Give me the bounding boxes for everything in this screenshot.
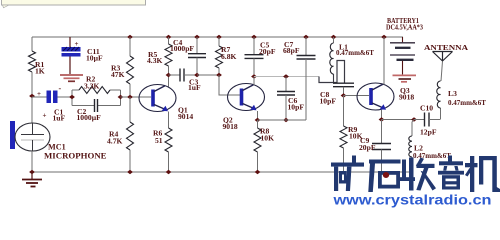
tooltip box top-left: [2, 0, 146, 8]
svg-text:1uF: 1uF: [53, 113, 66, 122]
svg-text:1K: 1K: [35, 67, 45, 76]
label R1 1K: [35, 60, 45, 76]
node Q2 collector junction: [251, 74, 257, 78]
wire bottom ground rail: [32, 171, 412, 173]
svg-text:4.7K: 4.7K: [107, 137, 122, 146]
svg-text:C10: C10: [420, 104, 433, 113]
svg-text:www.crystalradio.cn: www.crystalradio.cn: [332, 193, 491, 208]
node top rail C7: [303, 35, 309, 39]
ground below microphone: [22, 170, 42, 187]
node Q1 base junction: [127, 95, 133, 99]
label Q3 9018: [399, 86, 414, 102]
label R2 3.3K: [84, 75, 99, 91]
svg-text:1000pF: 1000pF: [170, 44, 194, 53]
wire top supply rail: [32, 36, 403, 38]
svg-text:51: 51: [155, 136, 163, 145]
inductor L3: [437, 81, 441, 119]
svg-text:20pF: 20pF: [359, 143, 376, 152]
wire Q1 emitter: [168, 112, 170, 129]
wire emitter to output: [382, 119, 415, 121]
wire Q3 collector: [383, 37, 385, 85]
resistor R4: [127, 97, 134, 172]
node Q3 base junction: [341, 93, 347, 97]
label mic plus: [43, 112, 47, 120]
svg-text:+: +: [75, 40, 79, 48]
label C1 polarity marks: [37, 84, 62, 98]
node top rail C4: [194, 35, 200, 39]
svg-text:68pF: 68pF: [283, 46, 300, 55]
wire C4 to R7: [197, 74, 219, 76]
capacitor C7: [297, 37, 316, 120]
capacitor C8: [333, 83, 354, 95]
svg-text:L3: L3: [448, 89, 457, 98]
svg-text:10K: 10K: [261, 134, 275, 143]
svg-text:47K: 47K: [111, 70, 125, 79]
node bottom rail R4: [127, 170, 133, 174]
wire oscillator feedback top: [254, 76, 319, 78]
svg-text:MICROPHONE: MICROPHONE: [44, 150, 107, 160]
svg-text:+: +: [43, 112, 47, 120]
label C5 20pF: [259, 41, 276, 56]
resistor R5: [165, 37, 172, 75]
resistor R2 with capacitor C2 parallel loop: [72, 87, 121, 113]
node bottom rail R6: [166, 170, 172, 174]
transistor Q3: [357, 83, 394, 110]
capacitor C6: [277, 77, 295, 121]
wire tank jog: [319, 61, 345, 84]
svg-text:1uF: 1uF: [188, 83, 201, 92]
resistor R9: [340, 96, 347, 173]
node bottom rail R8: [255, 170, 261, 174]
svg-text:9018: 9018: [223, 122, 238, 131]
transistor Q1: [139, 85, 176, 112]
node top rail R3: [127, 35, 133, 39]
node Q2 emitter junction: [255, 118, 261, 122]
resistor R8: [254, 120, 261, 172]
node top rail Q3 collector: [381, 35, 387, 39]
node R7 bottom junction: [216, 73, 222, 77]
microphone MC1: [10, 97, 50, 172]
svg-text:ANTENNA: ANTENNA: [424, 43, 469, 52]
node top rail R5: [166, 35, 172, 39]
svg-text:4.3K: 4.3K: [147, 56, 162, 65]
svg-text:10pF: 10pF: [288, 102, 305, 111]
label R5 4.3K: [147, 50, 162, 65]
inductor L2: [409, 120, 414, 173]
label C1 1uF: [53, 108, 66, 123]
battery BATTERY1: [390, 37, 415, 74]
resistor R7: [216, 37, 223, 75]
wire Q1 collector: [168, 75, 170, 87]
capacitor C10: [414, 113, 441, 127]
ground below battery: [393, 75, 417, 81]
label L1 0.47mm 6T: [336, 42, 374, 57]
label C7 68pF: [283, 40, 300, 55]
node top rail C5: [251, 35, 257, 39]
label R8 10K: [260, 127, 274, 143]
node C6 top: [283, 74, 289, 78]
wire Q2 collector: [253, 77, 255, 86]
svg-text:12pF: 12pF: [420, 128, 437, 137]
label C10 12pF: [420, 104, 437, 137]
label C8 10pF: [320, 90, 337, 106]
node R2C2 right: [118, 95, 124, 99]
resistor R1: [29, 37, 36, 96]
wire Q2 emitter: [257, 111, 259, 120]
label BATTERY1 DC4.5V AA*3: [386, 16, 423, 31]
node output junction: [411, 117, 417, 121]
label C6 10pF: [288, 96, 305, 111]
label R7 6.8K: [221, 45, 236, 61]
watermark Chinese characters: [331, 156, 500, 193]
label Q2 9018: [223, 116, 238, 131]
transistor Q2: [228, 84, 265, 111]
label C2 1000uF: [77, 107, 102, 122]
svg-text:0.47mm&6T: 0.47mm&6T: [413, 152, 451, 160]
label R9 10K: [348, 125, 363, 140]
wire base line Q1: [121, 96, 152, 98]
label L2 0.47mm 6T: [413, 144, 451, 161]
node R2C2 left: [69, 95, 75, 99]
svg-text:9018: 9018: [399, 93, 414, 102]
svg-text:DC4.5V,AA*3: DC4.5V,AA*3: [386, 23, 423, 32]
svg-text:-: -: [59, 84, 62, 93]
label C3 1uF: [188, 77, 201, 92]
svg-text:0.47mm&6T: 0.47mm&6T: [448, 99, 486, 107]
watermark red dot: [383, 172, 389, 178]
wire Q2 base: [219, 75, 240, 95]
inductor L1: [330, 37, 334, 83]
svg-text:3.3K: 3.3K: [84, 81, 99, 90]
label R4 4.7K: [107, 130, 122, 146]
resistor R3: [127, 37, 134, 97]
svg-text:9014: 9014: [178, 112, 193, 121]
resistor R6: [165, 128, 172, 172]
label C11 10uF: [86, 47, 103, 63]
label MC1 MICROPHONE: [44, 143, 107, 161]
label C11 plus: [75, 40, 79, 48]
capacitor C4: [188, 37, 206, 75]
node Q1 collector junction: [166, 73, 172, 77]
svg-text:10µF: 10µF: [86, 54, 103, 63]
svg-text:+: +: [37, 90, 41, 98]
capacitor C9: [372, 120, 391, 173]
ground below C11: [60, 75, 83, 81]
node mic-C1-R1 junction: [29, 94, 35, 98]
capacitor C5: [245, 37, 264, 77]
node top rail R7: [216, 35, 222, 39]
label R6 51: [153, 129, 163, 146]
label Q1 9014: [178, 106, 193, 122]
label ANTENNA: [424, 43, 469, 52]
node C4 bottom junction: [194, 73, 200, 77]
svg-text:6.8K: 6.8K: [221, 52, 236, 61]
wire emitter line y120: [258, 119, 307, 121]
capacitor C11 electrolytic: [62, 37, 81, 74]
capacitor C1 electrolytic: [32, 91, 72, 104]
wire Q3 emitter: [381, 110, 383, 120]
svg-text:20pF: 20pF: [259, 47, 276, 56]
label C4 1000pF: [170, 38, 194, 53]
node top rail L1: [331, 35, 337, 39]
svg-text:10pF: 10pF: [320, 97, 337, 106]
svg-text:1000µF: 1000µF: [77, 113, 102, 122]
label R3 47K: [111, 64, 125, 80]
wire Q3 base: [344, 95, 370, 97]
antenna: [433, 52, 453, 82]
label L3 0.47mm 6T: [448, 89, 486, 107]
node C6 bottom: [283, 118, 289, 122]
watermark url text: [332, 193, 491, 208]
capacitor C3: [169, 69, 198, 82]
label C9 20pF: [359, 136, 376, 152]
node Q3 emitter junction: [379, 117, 385, 121]
svg-text:0.47mm&6T: 0.47mm&6T: [336, 49, 374, 57]
